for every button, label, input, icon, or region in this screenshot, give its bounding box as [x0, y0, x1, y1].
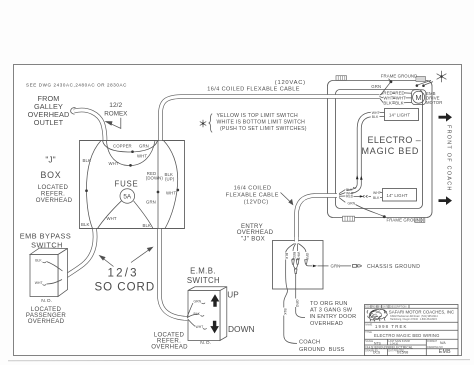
svg-text:WHT: WHT [137, 154, 147, 159]
wire blk to motor [380, 98, 412, 103]
wire 12/2 romex cable [74, 110, 105, 141]
svg-text:YELLOW IS TOP LIMIT SWITCH: YELLOW IS TOP LIMIT SWITCH [217, 113, 298, 119]
svg-text:GRN: GRN [146, 200, 156, 205]
svg-text:N/A: N/A [440, 341, 446, 345]
wire grn to bottom frame ground [356, 205, 384, 217]
leader arrow to bypass cord [100, 256, 114, 267]
svg-text:ORG: ORG [295, 300, 299, 308]
svg-text:BLK: BLK [372, 115, 379, 119]
svg-text:FORMAT: FORMAT [427, 340, 437, 343]
node on outer U [131, 150, 134, 153]
svg-text:14" LIGHT: 14" LIGHT [389, 112, 410, 117]
node on inner U [129, 164, 132, 167]
svg-text:"J": "J" [45, 154, 55, 164]
svg-text:BLK: BLK [395, 100, 403, 105]
svg-text:ROMEX: ROMEX [104, 111, 128, 118]
svg-text:WHT: WHT [373, 191, 381, 195]
wire 16/4 12VDC cable bed to entry box [297, 196, 338, 242]
wire pair light top to bottom fan [347, 112, 371, 190]
svg-text:CHASSIS GROUND: CHASSIS GROUND [367, 264, 420, 270]
wire nut 3 [294, 269, 297, 274]
connector block top left [336, 76, 347, 81]
svg-text:FLEXABLE CABLE: FLEXABLE CABLE [226, 193, 279, 199]
svg-text:GRN: GRN [371, 84, 381, 89]
connector block bottom left [343, 216, 355, 221]
big asterisk [437, 71, 447, 82]
svg-text:FUSE: FUSE [115, 180, 139, 189]
svg-text:SCALE: SCALE [365, 340, 373, 343]
curly brace [209, 114, 212, 132]
svg-text:14" LIGHT: 14" LIGHT [387, 193, 408, 198]
svg-text:DATE: DATE [382, 306, 389, 309]
entry box fan wires red wht to wire nuts [293, 244, 296, 252]
svg-text:BLK: BLK [81, 222, 89, 227]
front of coach top arrow [439, 113, 453, 122]
J box edges redrawn over tube crossings [80, 140, 185, 142]
svg-text:16/4 COILED FLEXABLE CABLE: 16/4 COILED FLEXABLE CABLE [207, 87, 300, 93]
safari lion logo [367, 309, 387, 321]
J box interior: outer U wire copper/grn [103, 141, 158, 153]
svg-text:OVERHEAD: OVERHEAD [28, 318, 65, 325]
node on right sweep [176, 189, 179, 192]
svg-text:NAME: NAME [365, 323, 372, 326]
svg-text:REV: REV [372, 306, 377, 309]
svg-text:EMB: EMB [439, 349, 451, 355]
wire grn to frame ground [381, 82, 391, 95]
svg-text:12/2: 12/2 [109, 102, 122, 109]
wire red to motor [380, 92, 412, 95]
node frame ground bottom [383, 215, 386, 218]
svg-text:BLK: BLK [285, 253, 289, 260]
svg-text:1998 TREK: 1998 TREK [375, 324, 408, 329]
svg-text:GRN: GRN [331, 264, 341, 269]
wire blk left sweep [86, 141, 101, 229]
svg-text:Harrisburg, Oregon 97446 1-8: Harrisburg, Oregon 97446 1-800-364-8215 [390, 318, 437, 321]
wires cord to switch terminals [184, 317, 191, 320]
bed fan labels blk wht red grn [339, 190, 345, 203]
svg-text:OVERHEAD: OVERHEAD [151, 344, 188, 351]
EMB switch body [188, 287, 227, 341]
sheet border [14, 65, 462, 356]
svg-text:"J" BOX: "J" BOX [241, 236, 265, 243]
leader arrow to romex [106, 118, 121, 129]
electro magic bed outer frame [328, 81, 433, 218]
bypass switch body [30, 248, 68, 297]
svg-text:RED: RED [346, 195, 354, 199]
svg-text:12/3: 12/3 [108, 267, 139, 279]
svg-text:BLK: BLK [83, 158, 91, 163]
svg-text:SEE DWG 2430AC,2480AC OR 2830A: SEE DWG 2430AC,2480AC OR 2830AC [26, 82, 127, 87]
svg-text:OVERHEAD: OVERHEAD [310, 321, 343, 327]
wires join below nuts [293, 265, 298, 269]
wire fuse to bottom left [98, 201, 122, 229]
svg-text:WHT: WHT [35, 281, 43, 285]
J box interior: inner U wire wht [107, 141, 156, 166]
lamp 14" light bottom [383, 189, 417, 202]
limit switch buttons (dots) [416, 84, 419, 87]
connector block bottom right [415, 218, 425, 223]
svg-text:GRN: GRN [348, 202, 356, 206]
svg-text:ELECTRO MAGIC BED WIRING: ELECTRO MAGIC BED WIRING [374, 333, 440, 338]
wire 12/3 cord J box to EMB switch [160, 229, 188, 319]
svg-text:UP: UP [227, 291, 239, 300]
svg-text:SO CORD: SO CORD [95, 281, 156, 293]
svg-text:GROUND BUSS: GROUND BUSS [299, 347, 345, 353]
wire 12/3 cord J box to bypass switch [64, 229, 95, 278]
svg-text:SAFARI MOTOR COACHES, INC: SAFARI MOTOR COACHES, INC [389, 309, 454, 314]
arrow on grn wire [313, 265, 317, 268]
note asterisk limit switch [200, 120, 206, 127]
svg-text:BLK: BLK [35, 258, 42, 262]
svg-text:6/15/98: 6/15/98 [397, 351, 408, 355]
wire red to light dashes [354, 195, 361, 197]
svg-text:E.M.B.: E.M.B. [190, 266, 216, 275]
svg-text:GRN: GRN [139, 144, 149, 149]
entry box fan wire grn [298, 244, 306, 253]
svg-text:IN ENTRY DOOR: IN ENTRY DOOR [310, 314, 357, 320]
svg-text:WHITE IS BOTTOM LIMIT SWIT: WHITE IS BOTTOM LIMIT SWITCH [217, 120, 306, 126]
svg-text:COPPER: COPPER [113, 144, 132, 149]
svg-text:BY: BY [378, 306, 382, 309]
svg-text:FRONT OF COACH: FRONT OF COACH [446, 125, 452, 192]
svg-text:FRAME GROUND: FRAME GROUND [387, 217, 424, 222]
electro magic bed inner frame [336, 90, 423, 209]
node on blk sweep [85, 189, 88, 192]
wire nut 4 [305, 260, 308, 264]
leader arrow to 12vdc cable [281, 193, 293, 205]
wire nut 2 [296, 259, 299, 265]
svg-text:BOX: BOX [41, 170, 62, 180]
wire fuse to bottom right [134, 201, 154, 229]
wire wht to motor [380, 97, 412, 99]
svg-text:WHT: WHT [109, 161, 119, 166]
svg-text:ECN: ECN [365, 306, 370, 309]
title block [365, 305, 459, 356]
svg-text:5A: 5A [123, 194, 132, 201]
svg-text:MOTOR: MOTOR [426, 100, 442, 105]
svg-text:TITLE: TITLE [365, 331, 372, 334]
motor M circle [413, 91, 425, 103]
wire 16/4 120VAC cable to bed [161, 97, 380, 142]
svg-text:ELECTRO –: ELECTRO – [368, 135, 422, 145]
wire grn vertical [157, 141, 159, 229]
svg-text:SWITCH: SWITCH [187, 276, 220, 285]
svg-text:BLK: BLK [373, 196, 380, 200]
svg-text:(DOWN): (DOWN) [146, 176, 164, 181]
motor M housing [412, 90, 426, 105]
svg-text:N.O.: N.O. [200, 340, 211, 346]
svg-text:M: M [415, 93, 421, 102]
svg-text:WHT: WHT [196, 325, 204, 329]
svg-text:OVERHEAD: OVERHEAD [36, 197, 73, 204]
svg-text:DESCRIPTION: DESCRIPTION [390, 306, 407, 309]
node on vertical wire [157, 191, 160, 194]
entry overhead J box outline [273, 241, 324, 290]
wire right sweep wht [164, 141, 178, 229]
svg-text:EMB BYPASS: EMB BYPASS [20, 232, 72, 241]
svg-text:WHT: WHT [107, 216, 117, 221]
J box [80, 141, 185, 229]
inline connector symbol [353, 265, 362, 268]
node frame ground top [389, 80, 392, 83]
svg-text:FRAME GROUND: FRAME GROUND [381, 74, 418, 79]
lamp 14" light top [385, 109, 419, 121]
svg-text:16/4 COILED: 16/4 COILED [234, 185, 272, 191]
svg-text:TO ORG RUN: TO ORG RUN [310, 301, 348, 307]
svg-text:GRN: GRN [194, 300, 202, 304]
svg-text:(12VDC): (12VDC) [244, 200, 269, 206]
svg-text:BLK: BLK [283, 309, 287, 316]
leader arrow to so cord [131, 247, 153, 262]
svg-text:WHT: WHT [166, 191, 176, 196]
scan artifact line [8, 360, 470, 361]
svg-text:DCS: DCS [373, 351, 381, 355]
front of coach bottom arrow [439, 196, 453, 205]
up arrow solid [211, 294, 220, 307]
svg-text:N.O.: N.O. [41, 298, 52, 304]
svg-text:MAGIC BED: MAGIC BED [362, 146, 420, 156]
arrowheads up on wire pair [356, 175, 359, 179]
tube core over entry box edge [295, 237, 298, 243]
wire nut 1 [292, 259, 295, 265]
svg-text:(UP): (UP) [165, 177, 175, 182]
svg-text:COACH: COACH [299, 339, 320, 345]
svg-text:BLK: BLK [383, 100, 391, 105]
svg-text:AT 3 GANG SW: AT 3 GANG SW [310, 308, 353, 314]
connector block top right [416, 77, 426, 82]
svg-text:DOWN: DOWN [228, 324, 255, 334]
svg-text:(PUSH TO SET LIMIT SWITCHE: (PUSH TO SET LIMIT SWITCHES) [220, 126, 307, 132]
leader lines to asterisk [418, 80, 431, 84]
down arrow solid [210, 321, 219, 334]
svg-text:BLK: BLK [143, 223, 151, 228]
svg-text:(120VAC): (120VAC) [275, 80, 306, 86]
svg-text:OUTLET: OUTLET [34, 118, 64, 127]
entry box fan wire blk [286, 244, 295, 253]
